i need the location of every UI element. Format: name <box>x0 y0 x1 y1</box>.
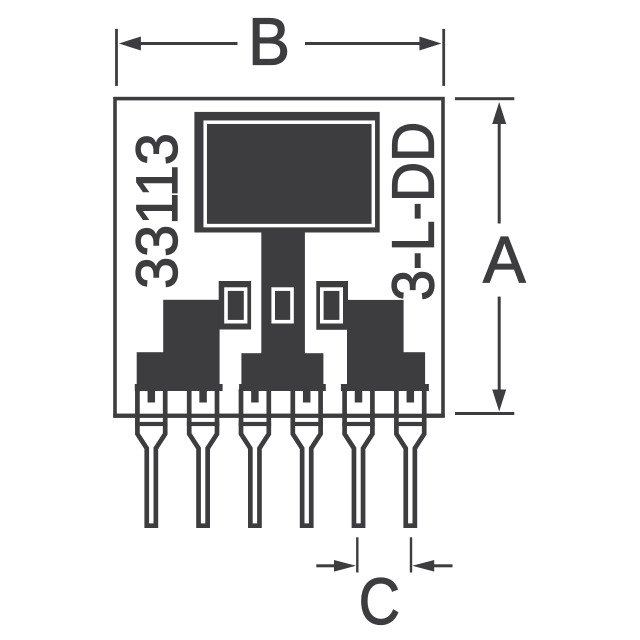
dimension B arrow right <box>305 37 441 51</box>
pin 4 <box>293 389 321 526</box>
die pad <box>194 112 379 233</box>
pin 3 solder band <box>239 422 272 426</box>
lead foot pin 1 <box>148 389 156 403</box>
centre window <box>273 289 292 322</box>
dimension C arrow left <box>316 560 356 572</box>
pin 1 solder band <box>135 422 168 426</box>
pin 4 solder band <box>290 422 323 426</box>
dimension A arrow bottom <box>492 297 506 412</box>
pin 1 <box>137 389 165 526</box>
dimension B arrow left <box>119 37 238 51</box>
right lead body <box>341 300 429 391</box>
dimension A extension line bottom <box>455 412 514 415</box>
centre lead body <box>239 230 326 391</box>
svg-text:C: C <box>359 565 400 639</box>
package outline <box>115 99 443 416</box>
lead foot pin 5 <box>355 389 363 403</box>
dimension A arrow top <box>492 102 506 224</box>
svg-text:B: B <box>248 4 290 79</box>
pin 3 <box>241 389 269 526</box>
svg-text:3-L-DD: 3-L-DD <box>381 122 447 301</box>
svg-text:33113: 33113 <box>126 133 190 289</box>
label C <box>359 565 400 639</box>
lead foot pin 2 <box>199 389 207 403</box>
dimension B extension line right <box>442 29 445 86</box>
right window block <box>316 281 348 330</box>
label A <box>483 223 526 297</box>
dimension C arrow right <box>412 560 452 572</box>
lead foot pin 6 <box>407 389 415 403</box>
label B <box>248 4 290 79</box>
dimension C extension line right <box>410 537 412 572</box>
pin 6 solder band <box>394 422 427 426</box>
lead foot pin 3 <box>251 389 259 403</box>
pin 5 solder band <box>342 422 375 426</box>
marking 33113 <box>126 133 190 289</box>
dimension C extension line left <box>356 537 358 572</box>
svg-text:A: A <box>483 223 526 297</box>
pin 2 solder band <box>187 422 220 426</box>
lead foot pin 4 <box>303 389 311 403</box>
left lead body <box>135 300 223 391</box>
left window block <box>219 281 251 330</box>
pin 2 <box>189 389 217 526</box>
pin 6 <box>396 389 424 526</box>
dimension B extension line left <box>115 29 118 86</box>
package bottom edge over pins <box>113 414 445 418</box>
pin 5 <box>345 389 373 526</box>
dimension A extension line top <box>455 97 514 100</box>
marking 3-L-DD <box>381 122 447 301</box>
